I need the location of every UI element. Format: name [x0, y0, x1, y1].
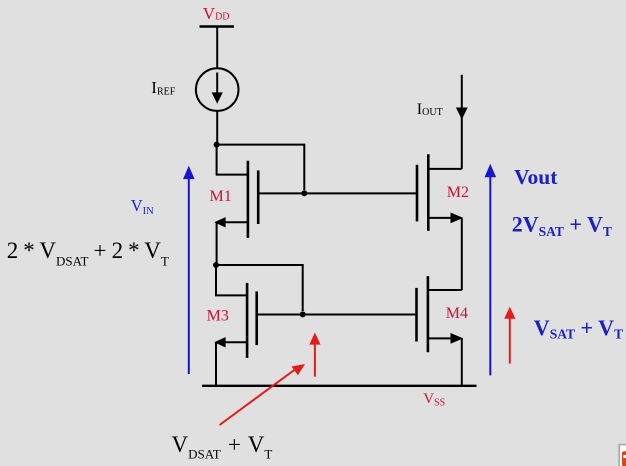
- svg-text:VSAT + VT: VSAT + VT: [534, 315, 623, 342]
- wire node A to node B (diode connection of M1): [217, 145, 305, 190]
- current source I_REF: [196, 68, 239, 111]
- wire M2 source to M4 drain: [461, 218, 463, 290]
- wire I_OUT input with current arrow: [456, 75, 468, 169]
- annotation arrow Vin (blue): [183, 166, 195, 374]
- transistor M1: [214, 145, 258, 238]
- node D : M3/M4 gate junction: [300, 311, 306, 317]
- node A : M1 drain junction: [214, 142, 220, 148]
- V_SS rail: [202, 385, 477, 387]
- annotation arrow Vdsat vertical (red): [309, 333, 320, 377]
- V_DD supply rail: [200, 25, 235, 27]
- wire node C to node D (diode connection of M3): [216, 265, 303, 311]
- wire M3 source to VSS rail: [215, 342, 217, 386]
- svg-text:VDSAT + VT: VDSAT + VT: [172, 432, 273, 461]
- annotation arrow Vout (blue): [485, 164, 497, 376]
- wire VDD rail to current source: [216, 27, 218, 69]
- node B : M1/M2 gate junction: [301, 190, 307, 196]
- svg-text:M2: M2: [447, 184, 469, 201]
- annotation arrow Vsat (red): [504, 307, 515, 364]
- transistor M2: [417, 154, 463, 231]
- node C : M3 drain junction: [213, 262, 219, 268]
- wire current source to node A: [216, 111, 218, 145]
- svg-text:M1: M1: [210, 188, 232, 205]
- annotation arrow Vdsat diagonal (red): [220, 364, 306, 425]
- wire M1 source to node C: [216, 222, 218, 265]
- svg-text:M4: M4: [446, 305, 468, 322]
- svg-text:Vout: Vout: [514, 165, 558, 189]
- wire M4 source to VSS rail: [461, 338, 463, 385]
- gate rail M3-M4: [257, 314, 417, 316]
- corner icon: [619, 445, 626, 466]
- svg-text:M3: M3: [207, 308, 229, 325]
- gate rail M1-M2: [258, 192, 417, 194]
- transistor M4: [417, 276, 464, 352]
- transistor M3: [214, 265, 257, 358]
